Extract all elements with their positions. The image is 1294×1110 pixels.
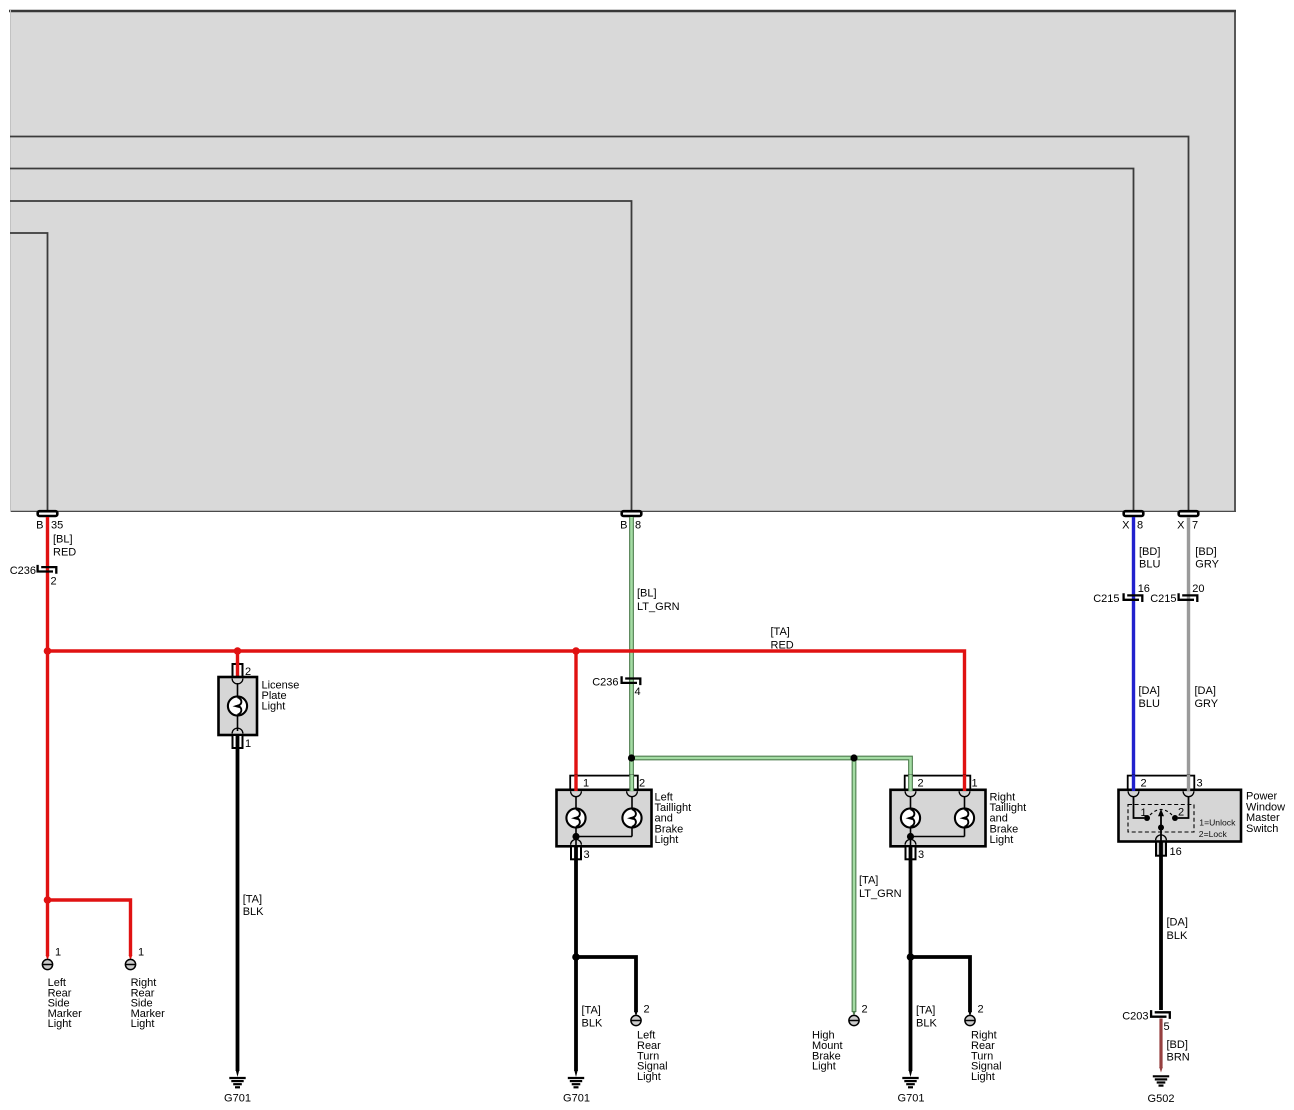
svg-text:[DA]: [DA]	[1167, 917, 1188, 929]
svg-text:Light: Light	[48, 1018, 72, 1030]
svg-text:Light: Light	[131, 1018, 155, 1030]
svg-text:2: 2	[918, 778, 924, 790]
svg-text:1: 1	[245, 738, 251, 750]
svg-text:X: X	[1122, 520, 1130, 532]
svg-text:[TA]: [TA]	[771, 626, 790, 638]
svg-text:Light: Light	[990, 834, 1014, 846]
svg-text:BLK: BLK	[916, 1017, 937, 1029]
svg-text:1: 1	[55, 947, 61, 959]
svg-text:2: 2	[639, 778, 645, 790]
svg-text:RED: RED	[53, 547, 76, 559]
svg-text:16: 16	[1138, 583, 1150, 595]
svg-text:BRN: BRN	[1167, 1052, 1190, 1064]
svg-text:5: 5	[1164, 1021, 1170, 1033]
svg-text:Light: Light	[812, 1061, 836, 1073]
svg-text:[BL]: [BL]	[637, 588, 657, 600]
svg-text:3: 3	[584, 849, 590, 861]
svg-text:B: B	[620, 520, 627, 532]
svg-text:BLK: BLK	[243, 906, 264, 918]
svg-text:2=Lock: 2=Lock	[1199, 829, 1228, 839]
svg-text:B: B	[36, 520, 43, 532]
svg-text:[TA]: [TA]	[582, 1005, 601, 1017]
svg-text:Light: Light	[262, 701, 286, 713]
svg-text:2: 2	[51, 576, 57, 588]
svg-text:16: 16	[1170, 846, 1182, 858]
svg-text:[DA]: [DA]	[1139, 685, 1160, 697]
svg-text:[TA]: [TA]	[859, 874, 878, 886]
svg-text:BLK: BLK	[1167, 930, 1188, 942]
svg-text:[TA]: [TA]	[243, 893, 262, 905]
svg-text:8: 8	[1137, 520, 1143, 532]
svg-text:1: 1	[1141, 807, 1147, 819]
svg-text:2: 2	[1141, 778, 1147, 790]
svg-text:[TA]: [TA]	[916, 1005, 935, 1017]
svg-text:7: 7	[1192, 520, 1198, 532]
svg-text:LT_GRN: LT_GRN	[859, 888, 902, 900]
svg-text:G502: G502	[1148, 1093, 1175, 1105]
svg-text:X: X	[1177, 520, 1185, 532]
svg-text:35: 35	[51, 520, 63, 532]
svg-text:4: 4	[635, 686, 641, 698]
svg-text:2: 2	[978, 1004, 984, 1016]
svg-text:BLK: BLK	[582, 1017, 603, 1029]
svg-text:3: 3	[918, 849, 924, 861]
svg-text:2: 2	[644, 1004, 650, 1016]
svg-text:Light: Light	[655, 834, 679, 846]
svg-text:[DA]: [DA]	[1195, 685, 1216, 697]
svg-text:C236: C236	[592, 676, 618, 688]
svg-text:2: 2	[862, 1004, 868, 1016]
svg-text:RED: RED	[771, 640, 794, 652]
svg-text:C215: C215	[1150, 593, 1176, 605]
svg-text:1: 1	[583, 778, 589, 790]
svg-text:BLU: BLU	[1139, 558, 1160, 570]
svg-text:[BD]: [BD]	[1195, 546, 1216, 558]
svg-text:Light: Light	[637, 1071, 661, 1083]
svg-text:[BD]: [BD]	[1139, 546, 1160, 558]
svg-text:1=Unlock: 1=Unlock	[1199, 818, 1236, 828]
svg-text:GRY: GRY	[1195, 558, 1219, 570]
svg-text:20: 20	[1192, 583, 1204, 595]
svg-text:C203: C203	[1122, 1010, 1148, 1022]
svg-text:1: 1	[972, 778, 978, 790]
svg-text:C215: C215	[1093, 593, 1119, 605]
svg-text:[BD]: [BD]	[1167, 1039, 1188, 1051]
svg-text:1: 1	[138, 947, 144, 959]
svg-text:Switch: Switch	[1246, 823, 1278, 835]
svg-text:8: 8	[635, 520, 641, 532]
svg-text:G701: G701	[563, 1093, 590, 1105]
svg-text:BLU: BLU	[1139, 698, 1160, 710]
svg-text:C236: C236	[10, 565, 36, 577]
svg-text:G701: G701	[898, 1093, 925, 1105]
svg-text:LT_GRN: LT_GRN	[637, 601, 680, 613]
svg-text:Light: Light	[971, 1071, 995, 1083]
svg-text:3: 3	[1197, 778, 1203, 790]
svg-text:G701: G701	[224, 1093, 251, 1105]
svg-text:2: 2	[1178, 807, 1184, 819]
svg-text:GRY: GRY	[1195, 698, 1219, 710]
svg-text:[BL]: [BL]	[53, 534, 73, 546]
